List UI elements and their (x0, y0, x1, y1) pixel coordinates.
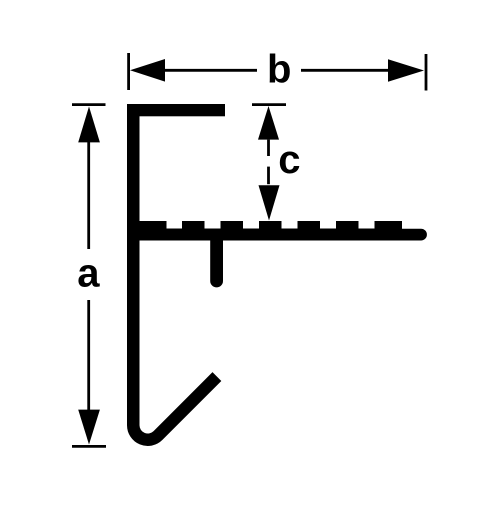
svg-text:a: a (77, 251, 100, 295)
svg-text:c: c (278, 138, 300, 182)
svg-text:b: b (267, 47, 291, 91)
